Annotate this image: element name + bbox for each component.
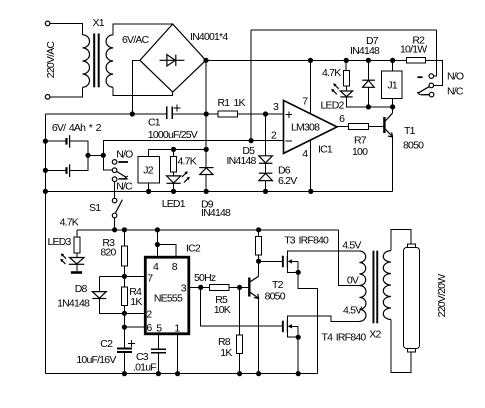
wire primary bottom — [50, 87, 83, 97]
svg-text:LED1: LED1 — [162, 198, 186, 210]
relay lever right — [418, 87, 430, 94]
relay contact common right — [429, 83, 434, 88]
LED1 arrows — [182, 172, 187, 177]
svg-text:LM308: LM308 — [291, 121, 320, 133]
wire bridge right vertex down — [205, 60, 207, 114]
svg-text:N/C: N/C — [116, 180, 133, 192]
ground rail bottom — [45, 373, 317, 375]
rail2 y230 — [77, 229, 339, 231]
svg-text:J2: J2 — [143, 165, 153, 177]
node bridge right vertex — [203, 58, 208, 63]
LED1 — [173, 172, 175, 176]
svg-text:T3 IRF840: T3 IRF840 — [284, 235, 329, 247]
resistor R2 — [406, 58, 425, 64]
diode D8 — [98, 276, 100, 291]
svg-text:10uF/16V: 10uF/16V — [76, 354, 116, 366]
diode D5 — [265, 114, 267, 156]
svg-text:C2: C2 — [100, 338, 113, 350]
wire N/C to S1 — [114, 182, 116, 199]
wire secondary bottom to bridge — [113, 87, 172, 95]
timer IC2 NE555 box — [145, 257, 189, 334]
relay contact N/C right — [421, 94, 430, 96]
svg-text:4.5V: 4.5V — [342, 239, 361, 251]
NE555 pin4/8 feed — [156, 230, 158, 257]
wire T3 gate — [259, 260, 282, 262]
transformer X1 primary terminal bottom — [45, 95, 50, 100]
svg-text:S1: S1 — [89, 202, 101, 214]
svg-text:4.7K: 4.7K — [60, 216, 79, 228]
resistor R1 — [218, 111, 238, 117]
transistor T1 — [383, 117, 385, 133]
resistor R8 — [239, 287, 241, 335]
svg-text:8050: 8050 — [265, 290, 286, 302]
node LED1 branch top — [171, 147, 176, 152]
transformer X1 secondary winding — [106, 35, 113, 87]
transistor T2 — [248, 278, 250, 297]
wire pin6 row — [124, 326, 145, 328]
resistor R5 — [209, 285, 229, 291]
node D9 top — [204, 147, 209, 152]
relay coil J2 — [148, 149, 150, 156]
transformer X1 primary winding — [83, 35, 90, 87]
transformer X2 secondary winding — [383, 251, 391, 320]
svg-text:1K: 1K — [130, 296, 142, 308]
svg-text:6V/ 4Ah * 2: 6V/ 4Ah * 2 — [52, 122, 102, 134]
wire top rail down to pin2 — [250, 30, 252, 141]
wire rail2 to X2 0V tap — [338, 230, 359, 286]
svg-text:R7: R7 — [354, 134, 367, 146]
node pin6 555 — [122, 325, 127, 330]
wire R2 out — [426, 60, 443, 85]
resistor R4 — [123, 276, 125, 287]
svg-text:1000uF/25V: 1000uF/25V — [148, 129, 198, 141]
wire opamp output — [335, 126, 348, 128]
svg-text:820: 820 — [100, 246, 116, 258]
wire battery plus to relay common — [103, 155, 112, 170]
wire pin5 to C3 — [157, 334, 159, 350]
node DC minus line joins — [130, 111, 135, 116]
diode D9 — [205, 149, 207, 167]
svg-text:10K: 10K — [214, 304, 231, 316]
svg-text:IC2: IC2 — [186, 243, 201, 255]
wire opamp pin4 — [310, 140, 312, 191]
wire top rail — [251, 29, 437, 31]
LED3 arrows — [62, 255, 66, 259]
svg-text:IN4148: IN4148 — [227, 155, 257, 167]
svg-text:220V/AC: 220V/AC — [45, 41, 57, 79]
wire DC line y114 — [45, 113, 166, 115]
wire bridge left vertex down — [132, 60, 140, 114]
wire pin7 row — [99, 275, 145, 277]
relay coil J1 — [392, 60, 394, 71]
capacitor C2 — [117, 348, 132, 350]
relay lever left — [117, 172, 127, 178]
wire opamp pin7 — [310, 60, 312, 114]
svg-text:100: 100 — [352, 146, 368, 158]
resistor 4.7K LED2 — [345, 60, 347, 70]
relay contact N/C left — [118, 178, 127, 180]
svg-text:50Hz: 50Hz — [194, 272, 216, 284]
power rail y60 — [206, 59, 406, 61]
lamp top cap — [408, 244, 416, 247]
wire pin1 down — [177, 334, 179, 374]
svg-text:T4 IRF840: T4 IRF840 — [322, 332, 367, 344]
svg-text:D8: D8 — [75, 283, 88, 295]
fluorescent tube 220V/20W — [404, 248, 420, 349]
transformer X1 core — [93, 34, 95, 88]
node R1 left junction — [204, 111, 209, 116]
diode D7 — [367, 60, 369, 80]
svg-text:N/O: N/O — [116, 149, 133, 161]
svg-text:4.7K: 4.7K — [322, 67, 341, 79]
relay contact N/O right — [417, 76, 422, 78]
wire lamp bottom to secondary — [391, 320, 411, 373]
wire battery plus up to opamp pin2 line — [103, 141, 283, 156]
svg-text:10/1W: 10/1W — [400, 43, 427, 55]
wire pin3 to T4 gate — [201, 287, 282, 326]
diode bridge IN4001*4 — [140, 24, 206, 92]
LED2 — [345, 86, 347, 91]
node pin2 junction — [249, 138, 254, 143]
node pin7 — [122, 274, 127, 279]
ground rail mid — [45, 190, 392, 192]
svg-text:220V/20W: 220V/20W — [436, 274, 448, 318]
switch S1 — [112, 198, 117, 203]
lamp bottom cap — [408, 348, 416, 352]
wire pin2 row — [124, 312, 145, 314]
svg-text:X1: X1 — [93, 17, 105, 29]
node battery plus — [101, 153, 106, 158]
left border vertical wire — [44, 114, 46, 374]
svg-text:1N4148: 1N4148 — [57, 297, 90, 309]
wire secondary top to lamp — [391, 229, 411, 250]
svg-text:4.7K: 4.7K — [178, 155, 197, 167]
node pin2 555 — [122, 311, 127, 316]
svg-text:X2: X2 — [369, 329, 381, 341]
svg-text:IC1: IC1 — [318, 143, 333, 155]
resistor 4.7K LED1 — [173, 149, 175, 156]
transformer X1 primary terminal top — [45, 21, 50, 26]
relay contact common left — [112, 168, 117, 173]
svg-text:IN4148: IN4148 — [201, 207, 231, 219]
wire secondary top to bridge — [113, 24, 173, 35]
svg-text:NE555: NE555 — [154, 292, 183, 304]
capacitor C3 — [151, 348, 166, 350]
svg-text:6.2V: 6.2V — [278, 175, 297, 187]
op-amp IC1 LM308 — [284, 100, 338, 153]
LED2 arrows — [334, 85, 338, 89]
svg-text:T2: T2 — [272, 279, 284, 291]
node T2 collector / T3 gate — [256, 259, 261, 264]
wire node149 line — [149, 148, 207, 150]
transformer X2 primary winding — [359, 251, 365, 286]
node battery cell junction — [43, 139, 48, 144]
svg-text:1K: 1K — [220, 347, 232, 359]
resistor pullup T2 — [258, 230, 260, 237]
transformer X2 core — [373, 251, 375, 324]
capacitor C1 — [166, 106, 168, 119]
svg-text:N/C: N/C — [447, 86, 464, 98]
battery 6V/4Ah*2 cell 2 — [45, 169, 65, 171]
wire node y107 — [346, 106, 392, 108]
battery 6V/4Ah*2 cell 1 — [45, 140, 65, 142]
wire top rail to N/O — [434, 30, 437, 76]
svg-text:8050: 8050 — [403, 139, 424, 151]
svg-text:IN4148: IN4148 — [350, 45, 380, 57]
svg-text:C1: C1 — [148, 117, 161, 129]
relay contact N/O left — [112, 160, 117, 165]
transistor T3 IRF840 — [282, 256, 284, 267]
svg-text:IN4001*4: IN4001*4 — [190, 31, 228, 43]
resistor 4.7K LED3 — [76, 230, 78, 237]
node pin3 junction — [263, 111, 268, 116]
wire pin3 out — [189, 286, 210, 288]
resistor R7 — [348, 124, 368, 130]
svg-text:4.5V: 4.5V — [343, 305, 362, 317]
LED3 — [76, 253, 78, 258]
svg-text:6V/AC: 6V/AC — [122, 34, 150, 46]
wire T3 source to ground rail — [298, 272, 317, 373]
resistor R3 — [123, 230, 125, 246]
svg-text:R1 1K: R1 1K — [218, 97, 246, 109]
svg-text:.01uF: .01uF — [133, 361, 156, 373]
ground bar LED3 — [71, 271, 82, 274]
svg-text:N/O: N/O — [447, 71, 464, 83]
svg-text:0V: 0V — [347, 274, 359, 286]
svg-text:J1: J1 — [387, 80, 397, 92]
transistor T4 IRF840 — [282, 321, 284, 333]
wire primary top — [50, 23, 83, 34]
svg-text:LED2: LED2 — [321, 100, 345, 112]
svg-text:T1: T1 — [404, 125, 416, 137]
svg-text:LED3: LED3 — [48, 236, 72, 248]
zener D6 — [259, 172, 273, 174]
node R5 out — [237, 285, 242, 290]
